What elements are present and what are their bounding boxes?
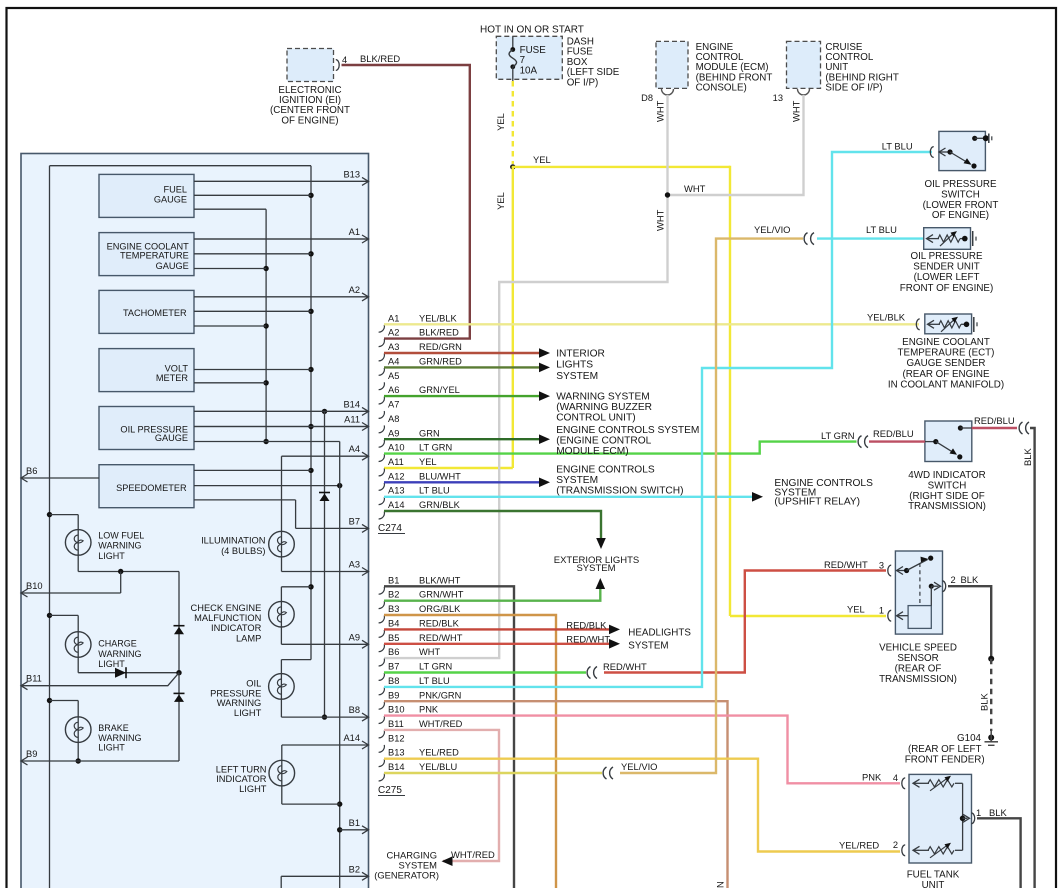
svg-text:INDICATOR: INDICATOR [211, 623, 262, 633]
svg-text:G104: G104 [957, 733, 982, 744]
svg-text:(ENGINE CONTROL: (ENGINE CONTROL [556, 436, 651, 447]
svg-text:LT BLU: LT BLU [866, 224, 897, 235]
wire: B1 feed branch [337, 442, 342, 889]
svg-text:WARNING: WARNING [98, 733, 141, 743]
svg-text:A8: A8 [388, 414, 399, 424]
wire A10 LT GRN to 4WD switch [384, 442, 857, 454]
svg-text:LT GRN: LT GRN [419, 443, 452, 453]
svg-text:YEL/BLK: YEL/BLK [867, 312, 906, 323]
interior lights system ref [539, 348, 605, 382]
left turn indicator light [216, 745, 340, 804]
svg-text:BLK/RED: BLK/RED [419, 328, 459, 338]
svg-text:SYSTEM: SYSTEM [556, 371, 598, 382]
svg-text:(LOWER FRONT: (LOWER FRONT [923, 200, 999, 211]
fuse 7 10A [509, 36, 546, 81]
node B1 arrow [340, 818, 369, 834]
node B2 arrow [281, 864, 368, 880]
4WD indicator switch [821, 421, 986, 512]
svg-text:B8: B8 [349, 705, 360, 715]
svg-text:B2: B2 [388, 590, 399, 600]
svg-text:B4: B4 [388, 618, 399, 628]
instrument cluster panel [21, 154, 369, 893]
svg-text:B13: B13 [388, 748, 405, 758]
svg-text:13: 13 [773, 93, 783, 103]
pin B10 [379, 705, 439, 724]
node B9 arrow [21, 749, 37, 765]
svg-text:B9: B9 [26, 749, 37, 759]
wire B4 RED/BLK [384, 628, 609, 630]
svg-text:UNIT: UNIT [922, 880, 945, 888]
wire B5 RED/WHT [384, 643, 609, 645]
svg-text:2: 2 [893, 840, 898, 850]
pin A8 [379, 414, 400, 433]
wire RED/WHT to speed sensor [604, 571, 886, 673]
oil pressure switch [882, 131, 999, 221]
svg-text:FRONT FENDER): FRONT FENDER) [905, 755, 985, 766]
svg-text:YEL/VIO: YEL/VIO [621, 761, 657, 772]
svg-text:A11: A11 [344, 415, 360, 425]
wire: charge diode chain [174, 572, 185, 762]
svg-text:WHT: WHT [419, 647, 440, 657]
svg-text:RED/WHT: RED/WHT [419, 633, 463, 643]
pin A7 [379, 400, 400, 419]
svg-text:A2: A2 [388, 328, 399, 338]
svg-text:GAUGE SENDER: GAUGE SENDER [907, 358, 986, 369]
wire: diode branch right [319, 411, 330, 717]
svg-text:(REAR OF LEFT: (REAR OF LEFT [908, 744, 981, 755]
svg-text:TACHOMETER: TACHOMETER [123, 308, 187, 318]
wire: B10 branch [21, 572, 121, 594]
svg-text:B11: B11 [26, 674, 42, 684]
volt meter [99, 349, 194, 392]
svg-text:BLK: BLK [961, 574, 979, 585]
svg-text:BLK: BLK [979, 693, 990, 711]
svg-text:LT BLU: LT BLU [419, 486, 450, 496]
svg-text:3: 3 [879, 561, 884, 571]
svg-text:METER: METER [156, 373, 189, 383]
wire B8 LT BLU to oil pressure switch [384, 152, 932, 687]
svg-text:PRESSURE: PRESSURE [210, 688, 261, 698]
engine coolant temperature (ECT) gauge sender [867, 312, 1004, 391]
svg-text:ILLUMINATION: ILLUMINATION [201, 535, 265, 545]
wire B14 YEL/BLU [384, 772, 602, 774]
wire A4 GRN/RED [384, 366, 539, 368]
svg-text:LT BLU: LT BLU [419, 676, 450, 686]
svg-text:(REAR OF ENGINE: (REAR OF ENGINE [902, 369, 990, 380]
pin B2 [379, 590, 464, 609]
svg-text:B2: B2 [349, 864, 360, 874]
oil pressure warning light [210, 674, 327, 720]
svg-text:INTERIOR: INTERIOR [556, 349, 605, 360]
svg-text:A9: A9 [349, 632, 360, 642]
svg-text:ENGINE CONTROLS: ENGINE CONTROLS [556, 465, 655, 476]
svg-text:YEL/BLU: YEL/BLU [419, 762, 457, 772]
wire B11 WHT/RED to charging system [384, 730, 499, 861]
wire BLK VSS pin2 to G104 [948, 586, 994, 731]
svg-text:BLK/WHT: BLK/WHT [419, 575, 461, 585]
svg-text:SYSTEM: SYSTEM [628, 641, 668, 652]
svg-text:YEL/VIO: YEL/VIO [754, 224, 790, 235]
svg-text:B9: B9 [388, 690, 399, 700]
svg-text:RED/WHT: RED/WHT [603, 661, 647, 672]
svg-text:TRANSMISSION): TRANSMISSION) [879, 674, 957, 685]
pin B5 [379, 633, 463, 652]
wire YEL fused feed [384, 81, 886, 616]
svg-text:SIDE OF I/P): SIDE OF I/P) [825, 82, 882, 93]
svg-text:A11: A11 [388, 457, 404, 467]
node A14 arrow [282, 733, 369, 749]
svg-text:B13: B13 [343, 169, 360, 179]
svg-text:OIL: OIL [246, 678, 261, 688]
svg-text:SENDER UNIT: SENDER UNIT [913, 262, 979, 273]
svg-text:GRN/RED: GRN/RED [419, 356, 462, 366]
exterior lights system ref [554, 538, 640, 589]
svg-text:A4: A4 [349, 444, 360, 454]
svg-text:SWITCH: SWITCH [928, 480, 967, 491]
wire: oil pressure gauge pins [194, 409, 369, 442]
node A4 arrow [282, 444, 369, 460]
oil pressure sender unit [900, 228, 993, 294]
brake warning light [50, 701, 142, 764]
wire: volt meter pins [194, 370, 311, 383]
ground G104 [905, 731, 998, 766]
wire B2 GRN/WHT [384, 582, 600, 601]
svg-text:RED/GRN: RED/GRN [419, 342, 462, 352]
wire A13 LT BLU to upshift relay [384, 496, 752, 498]
pin A11 [379, 457, 437, 476]
svg-text:SYSTEM: SYSTEM [576, 563, 615, 574]
node A2 arrow [194, 285, 369, 301]
pin B8 [379, 676, 450, 695]
svg-text:C274: C274 [378, 523, 402, 534]
svg-text:A10: A10 [388, 443, 405, 453]
engine controls system (ECM) ref [539, 425, 699, 457]
svg-text:A3: A3 [388, 342, 399, 352]
pin B6 [379, 647, 441, 666]
svg-text:LEFT TURN: LEFT TURN [216, 764, 267, 774]
B7 RED/WHT break [587, 661, 647, 679]
svg-text:WHT/RED: WHT/RED [419, 719, 463, 729]
svg-text:A14: A14 [388, 500, 405, 510]
wire A1 YEL/BLK to ECT sender [384, 323, 919, 325]
node A11 arrow [194, 415, 369, 431]
wire: speedometer pins [21, 470, 342, 528]
svg-text:LOW FUEL: LOW FUEL [98, 531, 144, 541]
svg-text:LIGHT: LIGHT [98, 743, 125, 753]
fuel gauge [99, 174, 194, 217]
svg-text:SWITCH: SWITCH [941, 189, 980, 200]
wire: B2 branch [280, 876, 282, 888]
pin A2 [379, 328, 459, 347]
svg-text:A4: A4 [388, 356, 399, 366]
svg-text:BLU/WHT: BLU/WHT [419, 471, 461, 481]
svg-text:WHT: WHT [684, 183, 706, 194]
svg-text:PNK/GRN: PNK/GRN [715, 881, 726, 888]
wire BLK/RED from EI to A2 [342, 65, 470, 339]
wire A3 RED/GRN [384, 352, 539, 354]
svg-text:TEMPERAURE (ECT): TEMPERAURE (ECT) [898, 348, 995, 359]
low fuel warning light [50, 515, 180, 575]
svg-text:B5: B5 [388, 633, 399, 643]
svg-text:ORG/BLK: ORG/BLK [419, 604, 461, 614]
svg-text:A1: A1 [388, 313, 399, 323]
svg-text:(UPSHIFT RELAY): (UPSHIFT RELAY) [774, 497, 860, 508]
pin B9 [379, 690, 462, 709]
svg-text:WARNING: WARNING [217, 698, 262, 708]
wire B7 LT GRN [384, 671, 586, 673]
svg-text:D8: D8 [641, 93, 653, 103]
svg-text:A9: A9 [388, 428, 399, 438]
wire A9 GRN [384, 438, 539, 440]
svg-text:YEL/RED: YEL/RED [419, 748, 459, 758]
svg-text:VOLT: VOLT [165, 364, 189, 374]
svg-text:4: 4 [893, 773, 898, 783]
svg-text:GRN/BLK: GRN/BLK [419, 500, 461, 510]
svg-text:B12: B12 [388, 733, 405, 743]
svg-text:B10: B10 [26, 581, 43, 591]
svg-text:YEL/RED: YEL/RED [839, 840, 879, 851]
electronic ignition (EI) [270, 49, 400, 127]
svg-text:MALFUNCTION: MALFUNCTION [194, 613, 261, 623]
svg-text:B7: B7 [349, 516, 360, 526]
wire: B11 branch [21, 673, 179, 686]
svg-text:B6: B6 [388, 647, 399, 657]
svg-text:YEL/BLK: YEL/BLK [419, 313, 458, 323]
connector C275 [378, 785, 405, 796]
svg-text:1: 1 [879, 606, 884, 616]
node B14 arrow [194, 399, 369, 415]
wire A6 GRN/YEL [384, 395, 539, 397]
svg-text:B1: B1 [349, 818, 360, 828]
pin A9 [379, 428, 440, 447]
svg-text:4WD INDICATOR: 4WD INDICATOR [908, 470, 985, 481]
svg-text:LT GRN: LT GRN [821, 430, 855, 441]
svg-text:A7: A7 [388, 400, 399, 410]
wire RED/BLU 4WD right + BLK down [972, 415, 1035, 888]
svg-text:BLK: BLK [989, 807, 1007, 818]
wire: right bus (node) [281, 166, 313, 674]
vehicle speed sensor [824, 551, 979, 685]
svg-text:GAUGE: GAUGE [154, 195, 187, 205]
pin A10 [379, 443, 453, 462]
engine coolant temperature gauge [99, 233, 194, 276]
pin A6 [379, 385, 460, 404]
svg-text:B11: B11 [388, 719, 404, 729]
wire B1 BLK/WHT [384, 586, 514, 888]
svg-text:PNK: PNK [862, 772, 882, 783]
svg-text:PNK: PNK [419, 705, 439, 715]
svg-text:WARNING SYSTEM: WARNING SYSTEM [556, 392, 650, 403]
node A9 arrow [281, 632, 368, 648]
headlights system ref [566, 620, 691, 652]
pin A14 [379, 500, 461, 519]
svg-text:B3: B3 [388, 604, 399, 614]
node B11 arrow [21, 674, 42, 690]
svg-text:B14: B14 [343, 399, 360, 409]
svg-text:B7: B7 [388, 662, 399, 672]
svg-text:RED/BLU: RED/BLU [974, 415, 1015, 426]
pin A12 [379, 471, 462, 490]
wire: left bus [47, 166, 311, 888]
svg-text:BLK: BLK [1022, 448, 1033, 466]
wire: fuel gauge pins [194, 181, 369, 195]
engine control module (ECM) [641, 41, 772, 122]
svg-text:WARNING: WARNING [98, 649, 141, 659]
charge warning light [50, 615, 180, 678]
charging system ref [374, 849, 495, 881]
svg-text:A1: A1 [349, 227, 360, 237]
svg-text:C275: C275 [378, 785, 402, 796]
svg-text:FUEL: FUEL [164, 184, 188, 194]
svg-text:WARNING: WARNING [98, 541, 141, 551]
svg-text:HEADLIGHTS: HEADLIGHTS [628, 628, 691, 639]
svg-text:BRAKE: BRAKE [98, 723, 129, 733]
wire WHT ECM/cruise to B6 [384, 95, 804, 658]
node A3 arrow [282, 560, 369, 576]
svg-text:CHARGE: CHARGE [98, 639, 137, 649]
svg-text:A5: A5 [388, 371, 399, 381]
svg-text:B8: B8 [388, 676, 399, 686]
svg-text:GRN/WHT: GRN/WHT [419, 590, 464, 600]
pin A3 [379, 342, 462, 361]
svg-text:A12: A12 [388, 471, 405, 481]
wire B13 YEL/RED to fuel tank [384, 759, 900, 852]
wire: B9 row [21, 760, 179, 762]
svg-text:B1: B1 [388, 575, 399, 585]
pin B7 [379, 662, 453, 681]
engine controls (upshift relay) ref [752, 478, 873, 508]
svg-text:CONSOLE): CONSOLE) [696, 82, 747, 93]
wire YEL/VIO riser [603, 239, 803, 779]
svg-text:LIGHT: LIGHT [98, 551, 125, 561]
svg-text:YEL: YEL [533, 154, 551, 165]
svg-text:OF ENGINE): OF ENGINE) [932, 210, 989, 221]
tachometer [99, 290, 194, 333]
svg-text:4: 4 [342, 55, 347, 65]
svg-text:LT BLU: LT BLU [882, 141, 913, 152]
svg-text:(LOWER LEFT: (LOWER LEFT [914, 272, 980, 283]
oil pressure gauge [99, 407, 194, 450]
svg-text:LIGHT: LIGHT [234, 708, 262, 718]
svg-text:IN COOLANT MANIFOLD): IN COOLANT MANIFOLD) [888, 379, 1004, 390]
svg-text:HOT IN ON OR START: HOT IN ON OR START [480, 25, 584, 36]
warning system ref [539, 391, 652, 423]
svg-text:YEL: YEL [495, 192, 506, 210]
cruise control unit [773, 41, 899, 122]
svg-text:RED/BLK: RED/BLK [419, 618, 460, 628]
svg-text:RED/BLK: RED/BLK [566, 620, 607, 631]
svg-text:LAMP: LAMP [236, 633, 261, 643]
pin B11 [379, 719, 463, 738]
wire B10 PNK to fuel tank [384, 716, 900, 784]
node B10 arrow [21, 581, 43, 597]
svg-text:A6: A6 [388, 385, 399, 395]
wire: middle bus (node) [194, 209, 269, 444]
pin A1 [379, 313, 458, 332]
svg-text:(RIGHT SIDE OF: (RIGHT SIDE OF [909, 491, 984, 502]
pin A5 [379, 371, 400, 390]
svg-text:TRANSMISSION): TRANSMISSION) [908, 501, 986, 512]
svg-text:WHT/RED: WHT/RED [451, 849, 495, 860]
node A1 arrow [194, 227, 369, 243]
svg-text:RED/WHT: RED/WHT [566, 634, 610, 645]
svg-text:SYSTEM: SYSTEM [556, 475, 598, 486]
svg-text:OF ENGINE): OF ENGINE) [281, 115, 338, 126]
svg-text:TEMPERATURE: TEMPERATURE [120, 251, 189, 261]
svg-text:RED/WHT: RED/WHT [824, 559, 868, 570]
svg-text:VEHICLE SPEED: VEHICLE SPEED [879, 643, 957, 654]
pin A13 [379, 486, 450, 505]
svg-text:(TRANSMISSION SWITCH): (TRANSMISSION SWITCH) [556, 486, 683, 497]
svg-text:GAUGE: GAUGE [155, 433, 188, 443]
svg-text:WHT: WHT [655, 209, 666, 231]
speedometer [99, 465, 194, 508]
svg-text:2: 2 [951, 575, 956, 585]
svg-text:B10: B10 [388, 705, 405, 715]
svg-text:MODULE ECM): MODULE ECM) [556, 446, 628, 457]
svg-text:B6: B6 [26, 466, 37, 476]
pin B3 [379, 604, 462, 623]
engine controls system (transmission switch) ref [539, 465, 684, 497]
svg-text:INDICATOR: INDICATOR [216, 774, 267, 784]
wire LT BLU to oil sender [754, 224, 924, 245]
svg-text:LIGHT: LIGHT [239, 784, 267, 794]
svg-text:B14: B14 [388, 762, 405, 772]
wire A14 GRN/BLK [384, 511, 601, 546]
svg-text:LIGHTS: LIGHTS [556, 360, 593, 371]
wire B3 ORG/BLK [384, 615, 556, 888]
svg-text:OF I/P): OF I/P) [567, 77, 599, 88]
wire: tachometer pins [194, 297, 369, 326]
wire: coolant gauge pins [194, 239, 369, 269]
svg-text:OIL PRESSURE: OIL PRESSURE [924, 179, 997, 190]
wire B9 PNK/GRN [384, 701, 728, 888]
pin B12 [379, 733, 405, 752]
svg-text:A14: A14 [343, 733, 360, 743]
svg-text:ENGINE CONTROLS SYSTEM: ENGINE CONTROLS SYSTEM [556, 425, 699, 436]
wire A12 BLU/WHT [384, 481, 539, 483]
check engine malfunction indicator lamp [191, 587, 311, 645]
svg-text:WHT: WHT [791, 100, 802, 122]
svg-text:CHECK ENGINE: CHECK ENGINE [191, 603, 262, 613]
svg-text:(REAR OF: (REAR OF [895, 664, 942, 675]
node B6 arrow [21, 466, 37, 482]
svg-text:A13: A13 [388, 486, 405, 496]
svg-text:SPEEDOMETER: SPEEDOMETER [116, 483, 187, 493]
svg-text:YEL: YEL [419, 457, 437, 467]
node B13 arrow [194, 169, 369, 185]
pin B4 [379, 618, 460, 637]
node B7 arrow [296, 516, 369, 532]
wire RED/BLU from A10 break [869, 440, 925, 442]
svg-text:FRONT OF ENGINE): FRONT OF ENGINE) [900, 283, 993, 294]
svg-text:LT GRN: LT GRN [419, 662, 452, 672]
svg-text:10A: 10A [520, 65, 538, 76]
svg-text:GAUGE: GAUGE [156, 261, 189, 271]
wire BLK fuel pin1 down [977, 818, 1021, 888]
svg-text:BLK/RED: BLK/RED [360, 53, 400, 64]
svg-text:A3: A3 [349, 560, 360, 570]
node B8 arrow [281, 705, 368, 721]
pin B1 [379, 575, 461, 594]
svg-text:PNK/GRN: PNK/GRN [419, 690, 461, 700]
svg-text:YEL: YEL [495, 113, 506, 131]
svg-text:WHT: WHT [655, 100, 666, 122]
pin B13 [379, 748, 459, 767]
svg-text:ENGINE COOLANT: ENGINE COOLANT [902, 337, 990, 348]
svg-text:CONTROL UNIT): CONTROL UNIT) [556, 413, 635, 424]
svg-text:OIL PRESSURE: OIL PRESSURE [910, 251, 983, 262]
